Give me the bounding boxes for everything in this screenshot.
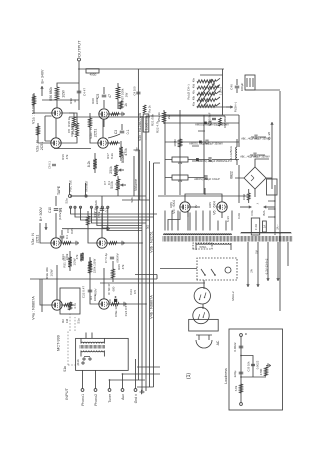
selector arrows	[198, 79, 219, 106]
label r group1	[61, 318, 69, 323]
speaker terminal box	[245, 75, 255, 90]
svg-text:C16 100μF: C16 100μF	[208, 112, 212, 125]
svg-text:0.0022: 0.0022	[256, 360, 260, 369]
selector ladder R51e	[197, 80, 216, 83]
capacitor C5 47	[96, 87, 112, 108]
label S1	[146, 225, 150, 229]
wire X337 down	[146, 115, 225, 117]
svg-text:MCT-999: MCT-999	[57, 335, 61, 351]
label B+ 340V	[41, 69, 80, 100]
wire X170 vertical	[100, 282, 205, 284]
wire bottom long line	[279, 91, 281, 311]
selector ladder R51a	[197, 105, 216, 108]
svg-text:C5: C5	[96, 94, 100, 99]
wire riser stubs	[137, 386, 154, 388]
label heater volt	[226, 216, 230, 222]
wire tape drop	[70, 195, 84, 197]
svg-text:45b: 45b	[193, 95, 196, 100]
tube V3b 2C51	[97, 231, 154, 253]
resistor NF 680	[107, 261, 116, 295]
svg-text:1/2W: 1/2W	[50, 269, 54, 276]
tube V1a N12AU7WA	[32, 93, 63, 124]
wire v4 plate	[40, 279, 52, 305]
svg-text:R58 380Ω: R58 380Ω	[223, 116, 227, 128]
svg-text:R21 /50k: R21 /50k	[151, 114, 155, 127]
wire v2b cathode	[108, 142, 120, 145]
svg-text:C24 0.5: C24 0.5	[124, 305, 128, 316]
svg-text:100: 100	[109, 298, 112, 303]
svg-text:220k: 220k	[95, 97, 99, 104]
svg-text:INPUT: INPUT	[64, 387, 69, 400]
wire input step1	[109, 379, 145, 381]
potentiometer Loudness box	[134, 114, 160, 200]
svg-text:V6 : 6X4: V6 : 6X4	[213, 201, 217, 215]
svg-text:220μ: 220μ	[233, 370, 237, 377]
svg-text:V4b : N6807A: V4b : N6807A	[150, 295, 154, 319]
svg-text:Phono1: Phono1	[81, 394, 85, 406]
svg-text:45e: 45e	[193, 77, 196, 82]
wire input step2	[123, 373, 160, 375]
resistor Rf3 100ohm	[173, 139, 182, 147]
svg-text:0.0022: 0.0022	[233, 342, 237, 352]
svg-text:1k: 1k	[73, 99, 77, 103]
choke 10H225mA	[229, 139, 237, 165]
svg-text:C9 0.1: C9 0.1	[48, 161, 52, 169]
node Gnd	[134, 389, 144, 404]
transformer MCT core	[80, 345, 105, 349]
svg-text:0V: 0V	[194, 205, 198, 208]
svg-text:RoL(8 CH~): RoL(8 CH~)	[187, 84, 191, 99]
svg-text:25μF: 25μF	[71, 127, 75, 134]
svg-text:P.(SH~): P.(SH~)	[234, 102, 238, 112]
resistor Rf2 10k box	[165, 175, 204, 183]
svg-text:AB(→40μF+40μF 350WV: AB(→40μF+40μF 350WV	[240, 155, 270, 159]
outlet circle 1	[194, 288, 210, 304]
wire S2 drop8	[101, 206, 142, 228]
svg-text:Phono2: Phono2	[94, 394, 98, 406]
svg-text:V5 : 6X4: V5 : 6X4	[172, 200, 176, 214]
resistor R5 470k	[119, 141, 128, 161]
svg-text:45d: 45d	[193, 83, 196, 88]
node Tuner	[108, 389, 112, 403]
switch power dashed box	[197, 258, 237, 280]
switch S1b	[76, 359, 84, 365]
label r group5	[89, 294, 97, 301]
wire stage4 B	[103, 268, 105, 299]
wire S2 drop9	[107, 206, 142, 230]
svg-text:S1a: S1a	[77, 318, 81, 324]
transformer PT right winding aux	[241, 233, 291, 234]
resistor R6 8.2k	[87, 153, 97, 173]
svg-text:0.1: 0.1	[126, 130, 130, 135]
tube V2b 2C51	[89, 127, 108, 149]
fuse box 1	[250, 210, 267, 235]
wire stage2-1 A	[55, 118, 57, 138]
switch contacts	[201, 267, 235, 301]
wire output top line	[77, 69, 87, 110]
wire output stub	[78, 61, 80, 70]
wire Y275	[268, 185, 280, 235]
svg-text:S2b: S2b	[94, 200, 98, 206]
svg-text:6.8k: 6.8k	[234, 385, 238, 391]
svg-text:OUTPUT: OUTPUT	[77, 40, 82, 57]
svg-text:Y024: Y024	[199, 245, 206, 249]
wire source line 2	[154, 163, 161, 387]
wire input step3	[137, 366, 160, 368]
resistor Rf1 10k box	[165, 157, 204, 165]
svg-text:0.6A: 0.6A	[237, 213, 241, 219]
selector ladder R51b	[197, 99, 216, 102]
svg-text:TAPE: TAPE	[57, 185, 61, 195]
plug cord box	[189, 319, 219, 331]
svg-text:47: 47	[108, 94, 112, 98]
tube V3a 2C51	[31, 233, 61, 249]
wire heater lead4	[277, 242, 280, 281]
wire B+ rail vertical	[79, 68, 224, 70]
svg-text:R3E 30k: R3E 30k	[45, 267, 49, 279]
label r group3	[61, 154, 69, 160]
wire monitor stub	[85, 183, 87, 195]
wire HT lead3	[218, 221, 226, 231]
wire primary drop	[160, 268, 197, 270]
tube V5 6X4	[172, 200, 190, 214]
wire HT lead1	[168, 212, 180, 231]
svg-text:4700: 4700	[259, 368, 263, 375]
wire v2 plate	[37, 123, 51, 143]
svg-text:Loudness: Loudness	[224, 368, 228, 384]
switch S1 dashed	[63, 331, 80, 372]
svg-text:680: 680	[112, 286, 116, 291]
svg-text:100Ω: 100Ω	[242, 194, 246, 200]
wire v1b cathode	[109, 112, 124, 116]
label c group2	[67, 127, 75, 134]
wire vert X257	[70, 195, 250, 197]
svg-text:8.2k: 8.2k	[110, 153, 114, 159]
svg-text:F 2A: F 2A	[254, 224, 258, 230]
wire main bus lower	[145, 116, 147, 391]
capacitor C46 100uF	[230, 79, 245, 93]
svg-text:Tuner: Tuner	[108, 393, 112, 403]
tube V1b N12AU7WA	[99, 109, 142, 141]
outlet circle 2	[193, 307, 209, 323]
wire HT lead2	[189, 213, 191, 231]
label heater2	[237, 213, 241, 219]
wire MCT leads right	[81, 333, 104, 344]
wire S2 drop5	[96, 206, 142, 225]
wire supply vert lines	[192, 131, 205, 161]
plug AC	[196, 335, 220, 348]
wire heater lead5	[287, 242, 289, 266]
svg-text:B: B	[244, 333, 248, 335]
selector ladder R51d	[197, 86, 216, 89]
svg-text:Loudness: Loudness	[144, 116, 148, 131]
potentiometer 250k Balance	[109, 151, 125, 176]
resistor R31 100 1/2W	[63, 251, 77, 271]
transformer PT label	[193, 243, 212, 249]
wire heater lead3	[250, 242, 270, 281]
resistor R56 400 box	[86, 69, 99, 77]
wire v1 plate	[33, 93, 52, 113]
svg-text:220k 1/2W: 220k 1/2W	[93, 259, 97, 274]
label r group7	[106, 153, 114, 159]
capacitor C10	[48, 207, 63, 213]
label r group4	[69, 98, 77, 104]
wire S2 drop3	[79, 206, 150, 220]
wire rec out stub	[69, 183, 71, 195]
wire bridge sides	[255, 159, 269, 197]
wire S2 drop2	[74, 206, 154, 217]
box around stage4 net	[60, 288, 80, 314]
svg-text:OSE 1W: OSE 1W	[114, 305, 118, 317]
capacitor can3 47uF	[196, 157, 239, 163]
resistor R7 680k	[49, 83, 79, 108]
capacitor small C9	[48, 161, 57, 169]
svg-text:220k: 220k	[65, 253, 69, 260]
transformer PT right winding HT	[164, 234, 232, 235]
transformer PT left winding primary	[196, 243, 231, 250]
wire v4b cathode	[109, 302, 126, 306]
svg-text:400Ω: 400Ω	[90, 73, 97, 77]
svg-text:8.2k: 8.2k	[87, 160, 91, 167]
svg-text:B+ 300V: B+ 300V	[39, 206, 43, 220]
wire MCT leads left	[81, 351, 104, 361]
node Rec out	[57, 180, 73, 203]
svg-text:Rr NF Rr: Rr NF Rr	[107, 283, 111, 294]
resistor Rf4 2k 2W	[157, 110, 171, 124]
label misc2	[117, 264, 125, 270]
svg-text:0.1: 0.1	[107, 181, 111, 186]
wire ladder stubs	[216, 78, 220, 106]
svg-text:B2A: B2A	[262, 210, 266, 215]
label r group2	[61, 253, 69, 260]
wire rect plates	[185, 188, 222, 202]
svg-text:AMOS(→50μF+50μF 350WV: AMOS(→50μF+50μF 350WV	[189, 142, 223, 146]
svg-text:C22 0.47: C22 0.47	[82, 286, 86, 299]
tube V6 6X4	[213, 201, 228, 215]
node Phono1	[81, 389, 85, 406]
capacitor can2 47uF	[165, 140, 239, 146]
wire v3 plate	[40, 223, 51, 243]
svg-text:Gnd ±: Gnd ±	[134, 394, 138, 403]
svg-text:C46: C46	[230, 84, 234, 90]
wire main bus upper	[141, 116, 143, 391]
svg-text:1/2W: 1/2W	[62, 90, 66, 97]
wire v2b plate	[89, 113, 98, 143]
node Monitor	[84, 180, 98, 206]
svg-text:(1): (1)	[186, 373, 192, 379]
wire ladder bottom bus	[197, 69, 233, 115]
svg-text:C4 47: C4 47	[83, 88, 87, 96]
capacitor C3 coupling	[108, 124, 130, 138]
capacitor C11	[94, 207, 109, 213]
capacitor dark box	[109, 296, 117, 303]
wire heater lead1	[247, 242, 259, 287]
svg-text:V3b : N2C51: V3b : N2C51	[150, 231, 154, 253]
capacitor can6	[194, 175, 220, 181]
svg-text:(120V AC: (120V AC	[58, 208, 62, 220]
wire v4b plate	[89, 258, 99, 304]
wire S2 drop1	[70, 206, 158, 214]
wire v3 cathode	[61, 241, 78, 245]
wire stage4 A	[42, 265, 57, 312]
wire stage2-1 B	[102, 119, 104, 138]
svg-text:R18 1k: R18 1k	[67, 117, 71, 127]
label misc1	[103, 181, 111, 186]
wire source line 1	[122, 161, 150, 387]
svg-text:1A: 1A	[263, 225, 267, 228]
tube V2a 2C51	[36, 138, 62, 152]
svg-text:Balance: Balance	[121, 151, 125, 163]
svg-text:Ra 1k: Ra 1k	[148, 105, 152, 113]
wire AC chain	[199, 280, 204, 335]
svg-text:47k: 47k	[121, 264, 125, 269]
svg-text:2C51: 2C51	[36, 235, 40, 244]
label c group1	[66, 228, 74, 234]
label misc3	[130, 197, 134, 203]
svg-text:2A ~: 2A ~	[276, 224, 280, 230]
svg-text:250k: 250k	[109, 166, 113, 174]
svg-text:S1a: S1a	[63, 366, 67, 372]
wire T8 cathode drop	[109, 303, 147, 305]
wire volume drop	[117, 176, 119, 196]
tube V4b 5687A	[99, 295, 154, 319]
svg-text:C3: C3	[114, 130, 118, 134]
node OUTPUT terminal	[77, 40, 82, 61]
connector arrows	[240, 202, 275, 208]
transformer MCT secondary coil	[81, 342, 104, 343]
svg-text:0.1: 0.1	[65, 235, 69, 240]
svg-text:400V: 400V	[94, 288, 98, 295]
selector labels	[187, 77, 223, 106]
wire v5 leads down	[188, 207, 222, 218]
capacitor C22 0.47	[82, 286, 98, 299]
wire v4 cathode	[62, 304, 74, 307]
svg-text:6822: 6822	[230, 171, 234, 179]
label PSH	[234, 102, 238, 112]
wire filter rail2	[165, 115, 239, 203]
svg-text:V4a : N6807A: V4a : N6807A	[32, 296, 36, 320]
svg-text:AC: AC	[216, 340, 220, 345]
svg-text:100Ω: 100Ω	[173, 139, 177, 147]
svg-text:Aux: Aux	[121, 394, 125, 400]
svg-text:R56 680k: R56 680k	[49, 87, 53, 101]
svg-text:S1b: S1b	[76, 359, 80, 365]
transformer MCT-999 box	[57, 335, 129, 370]
wire v3b plate	[87, 211, 97, 243]
resistor R9 100k	[116, 83, 128, 109]
wire S2 drop4	[90, 206, 146, 223]
resistor 1k bus	[143, 105, 151, 113]
resistor R32 47k	[75, 253, 84, 261]
svg-text:6.3V: 6.3V	[226, 216, 230, 222]
wire grid link upper	[45, 116, 52, 141]
wire ladder top line	[200, 74, 223, 76]
svg-text:C4 100: C4 100	[133, 86, 137, 95]
svg-text:0.5A: 0.5A	[250, 210, 254, 216]
svg-text:100k: 100k	[93, 294, 97, 301]
selector ladder R51c	[197, 92, 216, 95]
label (1)	[186, 373, 192, 379]
potentiometer 500k Volume	[110, 179, 138, 191]
rectifier bridge 6822	[230, 167, 273, 189]
svg-text:AMOS(→50μF C/GLP: AMOS(→50μF C/GLP	[194, 177, 220, 181]
wire T6 cathode drop	[107, 242, 143, 244]
svg-text:45a: 45a	[193, 101, 196, 106]
svg-text:1M: 1M	[65, 318, 69, 323]
capacitor C12	[60, 230, 128, 317]
resistor 100ohm res	[242, 189, 250, 203]
wire v2 cathode	[61, 113, 78, 143]
selector small parts	[208, 112, 228, 128]
capacitor C14 0.4u	[104, 253, 120, 263]
label r group6	[93, 211, 101, 218]
wire feedback Y42	[41, 279, 43, 305]
svg-text:MHA-2: MHA-2	[231, 291, 235, 301]
wire PT lead labels	[169, 202, 212, 208]
wire supply line Y269	[267, 122, 278, 195]
svg-text:320V: 320V	[208, 202, 212, 208]
switch S1a dash2	[70, 313, 81, 331]
resistor in box	[69, 302, 77, 310]
wire vol line Y134	[133, 156, 135, 196]
svg-text:1k: 1k	[124, 103, 128, 107]
svg-text:47k: 47k	[75, 254, 79, 259]
label B300V	[39, 206, 47, 230]
svg-text:100μF: 100μF	[240, 83, 244, 92]
node Phono2	[94, 389, 98, 406]
tube V4a 5687A	[32, 296, 63, 320]
svg-text:C10: C10	[48, 207, 52, 213]
capacitor can4 47uF	[241, 135, 271, 141]
svg-text:C? 0.4μ: C? 0.4μ	[104, 253, 108, 263]
transformer PT core	[163, 236, 292, 242]
svg-text:600WV: 600WV	[116, 253, 120, 262]
svg-text:J.2k×2: J.2k×2	[219, 86, 223, 95]
inset loudness detail	[224, 329, 283, 410]
wire mid vertical X336	[69, 116, 150, 118]
capacitor can1 47uF	[165, 121, 239, 127]
svg-text:R5a 2k: R5a 2k	[157, 112, 161, 122]
svg-text:0.5: 0.5	[133, 290, 137, 295]
wire v3b cathode	[107, 241, 124, 245]
wire vert X174 feedback	[30, 275, 157, 280]
svg-text:2W: 2W	[125, 93, 129, 98]
label r group8	[91, 97, 99, 104]
svg-text:C:B 10k: C:B 10k	[247, 361, 251, 372]
label misc4	[129, 289, 137, 295]
wire loudness feed	[133, 69, 141, 380]
wire AC100V line	[58, 208, 109, 231]
wire v1b grid	[103, 119, 105, 127]
wire stage3 A	[55, 196, 57, 238]
resistor R33 220k	[45, 257, 97, 279]
node Aux	[121, 389, 125, 400]
svg-text:S2b: S2b	[130, 197, 134, 203]
wire v1 cathode	[62, 113, 75, 127]
svg-text:47k: 47k	[65, 154, 69, 159]
wire PT leads right	[165, 211, 232, 231]
wire stage3 B	[101, 196, 103, 238]
node INPUT label	[64, 387, 69, 400]
svg-text:AB(→40μF+40μF 350WV: AB(→40μF+40μF 350WV	[241, 137, 271, 141]
svg-text:S1: S1	[146, 225, 150, 229]
wire heater lead2	[257, 242, 269, 287]
svg-text:4.7k: 4.7k	[73, 303, 77, 309]
capacitor can5 47uF	[240, 153, 270, 159]
svg-text:Volume: Volume	[134, 179, 138, 191]
wire input risers	[83, 359, 136, 389]
wire cathode link V2	[54, 148, 91, 150]
